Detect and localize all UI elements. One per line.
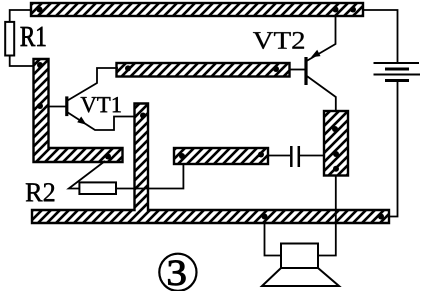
track strip S5 (central vertical, merges into bottom rail) (32, 104, 389, 224)
wire VT2 base (290, 69, 306, 71)
label R1 (21, 27, 46, 46)
junction on S7 top (332, 126, 338, 132)
junction on S1 at battery wire (350, 7, 356, 13)
wire R2 left lead diagonal (69, 161, 105, 189)
junction on S2 right at VT2 base (273, 66, 279, 72)
wire VT1 base (49, 106, 66, 108)
battery GB plate long 1 (374, 62, 420, 64)
battery GB plate short 2 (385, 79, 409, 82)
battery GB plate short 1 (385, 68, 409, 71)
junction on S1 at R1 (37, 7, 43, 13)
junction on S5 at VT1 emitter (140, 113, 146, 119)
wire S8 to speaker left (265, 223, 282, 256)
battery GB plate long 2 (374, 74, 421, 76)
junction on S6 right (258, 152, 264, 158)
track strip S1 (top supply rail) (31, 3, 363, 16)
transistor VT1 emitter arrow (77, 117, 86, 125)
transistor VT1 base bar (65, 96, 68, 116)
transistor VT2 collector wire (307, 76, 336, 111)
wire R1 bottom lead (10, 56, 34, 67)
junction on S7 bottom (333, 166, 339, 172)
junction on S4 at R2 (105, 154, 111, 160)
wire battery to bottom rail (389, 81, 398, 217)
transistor VT2 base bar (304, 57, 307, 85)
wire top rail to battery (363, 10, 398, 63)
label VT2 (253, 32, 304, 49)
track strip S3+S4 (left vertical + bottom-left horizontal, L shape) (34, 59, 123, 162)
transistor VT2 emitter arrow (311, 50, 321, 57)
wire R1 top lead (10, 10, 31, 22)
resistor R2 (79, 182, 116, 194)
junction on S3 top (37, 62, 43, 68)
track strip S6 (middle horizontal) (174, 148, 268, 164)
speaker BA cone (262, 268, 339, 286)
capacitor C1 plate left (290, 146, 293, 167)
track strip S2 (second row) (117, 63, 290, 77)
junction on S8 right (378, 214, 384, 220)
track strip S7 (right vertical block) (324, 111, 348, 176)
transistor VT1 emitter wire (67, 112, 135, 130)
capacitor C1 plate right (298, 146, 301, 167)
label VT1 (81, 97, 121, 113)
wire R2 right lead (116, 164, 183, 189)
wire S6 to capacitor (268, 155, 290, 157)
label R2 (26, 183, 55, 201)
junction on S7 middle (333, 151, 339, 157)
transistor VT2 emitter wire (307, 16, 336, 61)
resistor R1 (5, 22, 14, 56)
junction on S1 at VT2 emitter (333, 7, 339, 13)
figure number 3 (168, 261, 185, 286)
transistor VT1 collector wire (68, 68, 119, 101)
wire S7 to speaker right (318, 176, 336, 256)
figure number 3 circle (159, 254, 196, 291)
wire capacitor to S7 (300, 155, 324, 157)
junction on S6 left (179, 153, 185, 159)
junction on S2 left (125, 65, 131, 71)
junction on S3 at VT1 base (37, 103, 43, 109)
junction on S8 at speaker (262, 214, 268, 220)
speaker BA frame (281, 244, 318, 269)
